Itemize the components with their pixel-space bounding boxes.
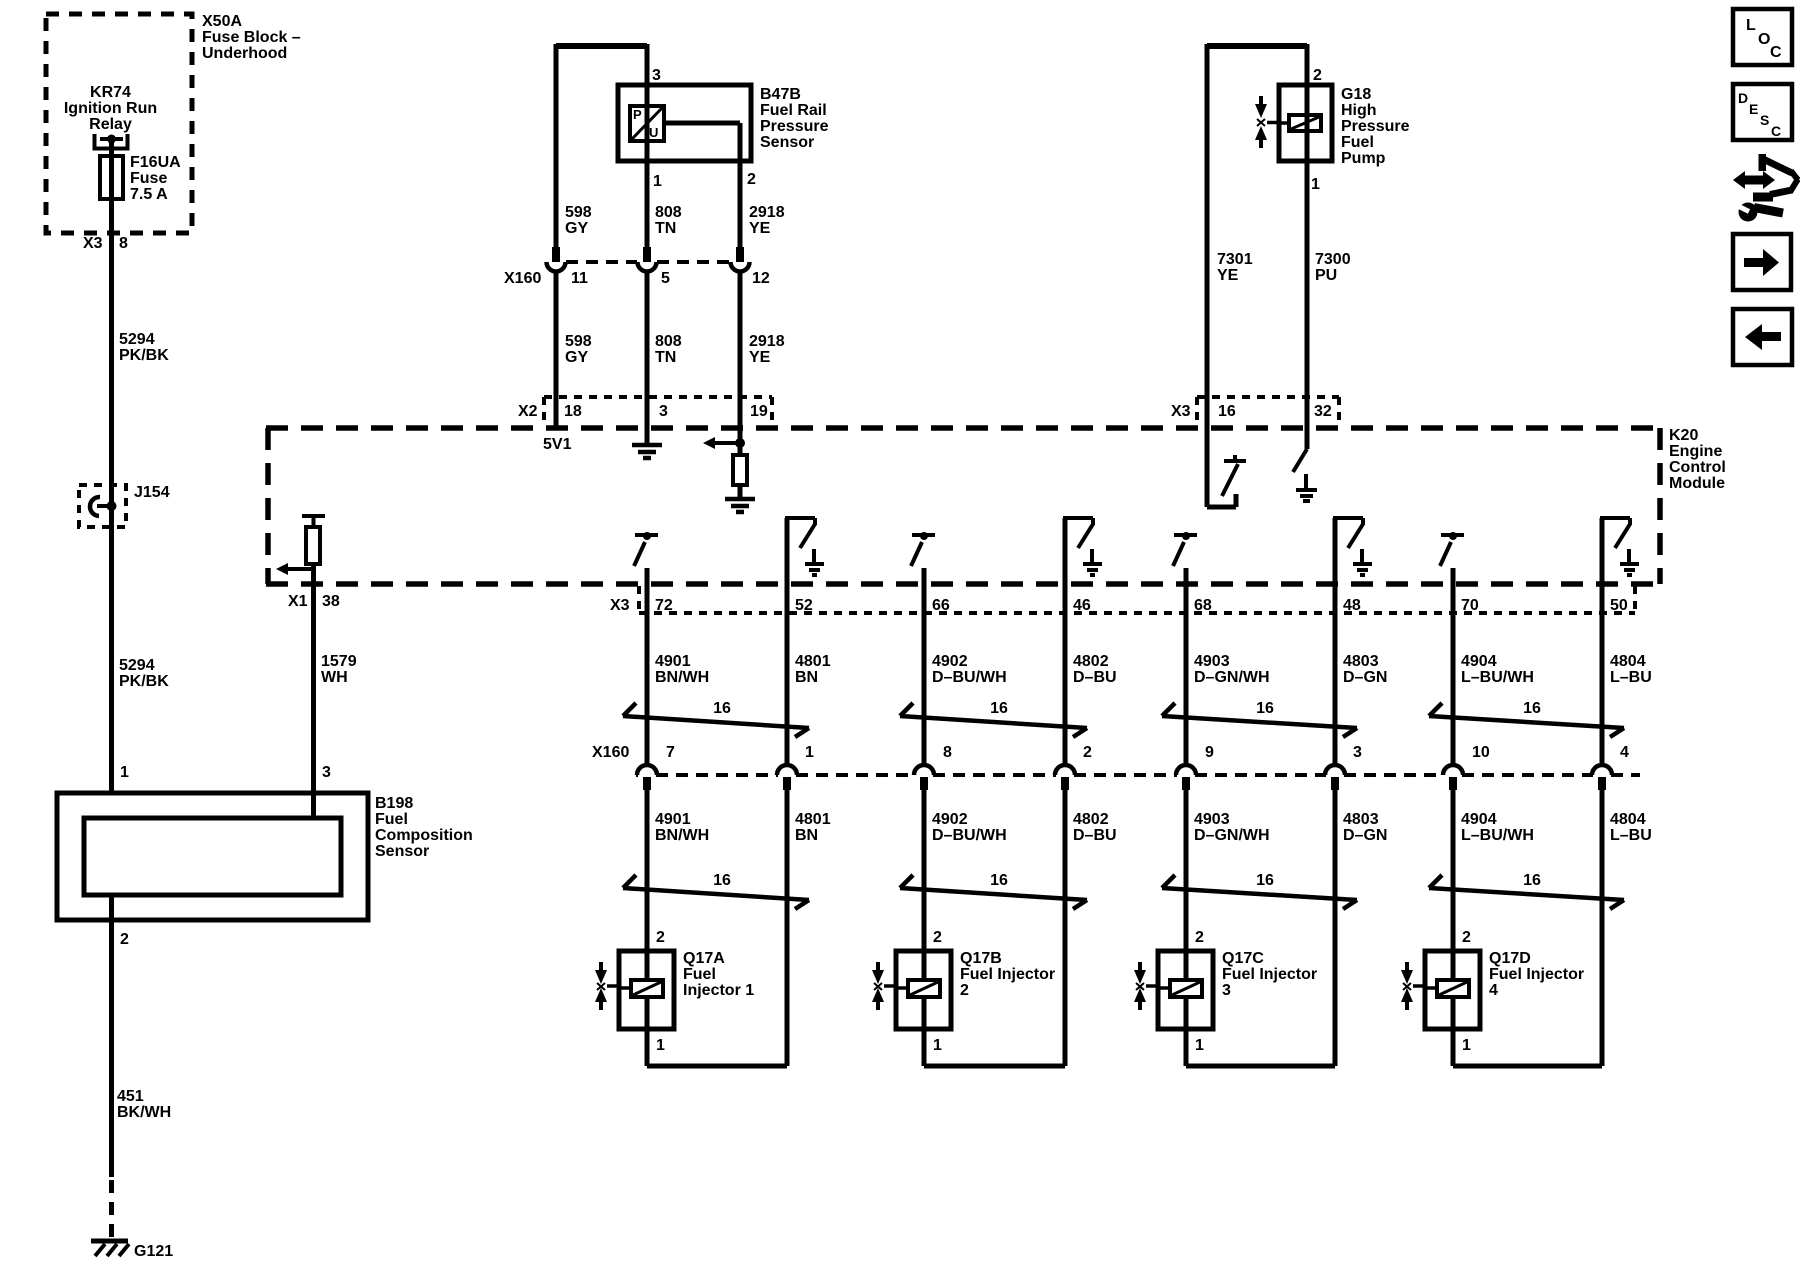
svg-text:Fuel: Fuel	[683, 966, 716, 983]
svg-text:Pressure: Pressure	[1341, 118, 1410, 135]
svg-text:TN: TN	[655, 220, 676, 237]
svg-text:4803: 4803	[1343, 653, 1379, 670]
svg-text:Pump: Pump	[1341, 150, 1386, 167]
svg-text:Q17A: Q17A	[683, 950, 725, 967]
svg-text:4903: 4903	[1194, 653, 1230, 670]
svg-text:X3: X3	[83, 235, 103, 252]
svg-text:5: 5	[661, 270, 670, 287]
svg-text:O: O	[1758, 31, 1770, 48]
svg-text:KR74: KR74	[90, 84, 131, 101]
svg-text:C: C	[1770, 44, 1782, 61]
svg-text:4801: 4801	[795, 653, 831, 670]
svg-text:Control: Control	[1669, 459, 1726, 476]
svg-text:2918: 2918	[749, 204, 785, 221]
svg-text:Fuel Injector: Fuel Injector	[1489, 966, 1584, 983]
svg-text:C: C	[1771, 123, 1781, 139]
svg-text:BN: BN	[795, 669, 818, 686]
svg-text:X1: X1	[288, 593, 308, 610]
svg-text:PK/BK: PK/BK	[119, 673, 169, 690]
svg-text:4802: 4802	[1073, 811, 1109, 828]
svg-text:5294: 5294	[119, 331, 155, 348]
svg-text:BN/WH: BN/WH	[655, 827, 709, 844]
svg-text:8: 8	[943, 744, 952, 761]
svg-text:P: P	[633, 107, 642, 122]
svg-text:L–BU/WH: L–BU/WH	[1461, 669, 1534, 686]
svg-text:1: 1	[1311, 176, 1320, 193]
svg-text:3: 3	[652, 67, 661, 84]
svg-text:18: 18	[564, 403, 582, 420]
svg-text:B47B: B47B	[760, 86, 801, 103]
svg-text:D–GN: D–GN	[1343, 669, 1387, 686]
svg-text:S: S	[1760, 112, 1769, 128]
svg-text:4904: 4904	[1461, 653, 1497, 670]
svg-text:PU: PU	[1315, 267, 1337, 284]
svg-text:598: 598	[565, 333, 592, 350]
svg-text:10: 10	[1472, 744, 1490, 761]
svg-text:52: 52	[795, 597, 813, 614]
svg-text:4: 4	[1620, 744, 1629, 761]
svg-text:L–BU: L–BU	[1610, 827, 1652, 844]
svg-text:66: 66	[932, 597, 950, 614]
svg-text:1: 1	[1195, 1037, 1204, 1054]
svg-text:Fuse: Fuse	[130, 170, 167, 187]
svg-text:1579: 1579	[321, 653, 357, 670]
svg-text:Engine: Engine	[1669, 443, 1722, 460]
svg-text:4: 4	[1489, 982, 1498, 999]
svg-text:48: 48	[1343, 597, 1361, 614]
svg-text:J154: J154	[134, 484, 170, 501]
svg-text:38: 38	[322, 593, 340, 610]
svg-text:L: L	[1746, 17, 1756, 34]
svg-text:4902: 4902	[932, 811, 968, 828]
svg-text:2: 2	[960, 982, 969, 999]
svg-text:16: 16	[1218, 403, 1236, 420]
svg-text:7.5 A: 7.5 A	[130, 186, 168, 203]
svg-text:Relay: Relay	[89, 116, 132, 133]
svg-text:Underhood: Underhood	[202, 45, 287, 62]
svg-text:3: 3	[659, 403, 668, 420]
svg-text:GY: GY	[565, 349, 588, 366]
svg-text:451: 451	[117, 1088, 144, 1105]
svg-text:4802: 4802	[1073, 653, 1109, 670]
svg-text:16: 16	[1523, 700, 1541, 717]
svg-text:1: 1	[120, 764, 129, 781]
svg-text:11: 11	[571, 270, 588, 287]
svg-text:2: 2	[1083, 744, 1092, 761]
svg-text:46: 46	[1073, 597, 1091, 614]
svg-text:5V1: 5V1	[543, 436, 572, 453]
svg-text:598: 598	[565, 204, 592, 221]
svg-text:16: 16	[1256, 700, 1274, 717]
svg-text:7: 7	[666, 744, 675, 761]
svg-text:X3: X3	[610, 597, 630, 614]
svg-text:16: 16	[1256, 872, 1274, 889]
svg-text:4901: 4901	[655, 811, 691, 828]
svg-text:GY: GY	[565, 220, 588, 237]
svg-text:Q17B: Q17B	[960, 950, 1002, 967]
svg-text:YE: YE	[1217, 267, 1239, 284]
svg-text:U: U	[649, 125, 658, 140]
svg-text:5294: 5294	[119, 657, 155, 674]
svg-text:1: 1	[653, 173, 662, 190]
svg-text:D–GN: D–GN	[1343, 827, 1387, 844]
svg-text:1: 1	[805, 744, 814, 761]
svg-text:4904: 4904	[1461, 811, 1497, 828]
svg-text:X2: X2	[518, 403, 538, 420]
svg-text:X50A: X50A	[202, 13, 242, 30]
svg-text:D–BU/WH: D–BU/WH	[932, 827, 1007, 844]
svg-text:16: 16	[990, 872, 1008, 889]
svg-text:D–BU: D–BU	[1073, 669, 1117, 686]
svg-text:Q17C: Q17C	[1222, 950, 1264, 967]
svg-text:32: 32	[1314, 403, 1332, 420]
svg-text:D–GN/WH: D–GN/WH	[1194, 669, 1270, 686]
svg-text:Module: Module	[1669, 475, 1725, 492]
svg-text:Fuel: Fuel	[1341, 134, 1374, 151]
svg-text:Fuel Injector: Fuel Injector	[960, 966, 1055, 983]
svg-text:TN: TN	[655, 349, 676, 366]
svg-text:D–BU: D–BU	[1073, 827, 1117, 844]
svg-text:2: 2	[656, 929, 665, 946]
svg-text:16: 16	[713, 872, 731, 889]
svg-text:X160: X160	[592, 744, 629, 761]
svg-text:808: 808	[655, 204, 682, 221]
svg-text:BK/WH: BK/WH	[117, 1104, 171, 1121]
svg-text:4804: 4804	[1610, 653, 1646, 670]
svg-text:D: D	[1738, 90, 1748, 106]
svg-text:3: 3	[1222, 982, 1231, 999]
svg-text:2: 2	[120, 931, 129, 948]
svg-text:12: 12	[752, 270, 770, 287]
svg-text:PK/BK: PK/BK	[119, 347, 169, 364]
svg-text:F16UA: F16UA	[130, 154, 181, 171]
svg-text:Ignition Run: Ignition Run	[64, 100, 157, 117]
svg-text:2: 2	[1195, 929, 1204, 946]
svg-text:E: E	[1749, 101, 1758, 117]
svg-text:Pressure: Pressure	[760, 118, 829, 135]
svg-text:Fuel Injector: Fuel Injector	[1222, 966, 1317, 983]
svg-text:K20: K20	[1669, 427, 1698, 444]
svg-text:D–BU/WH: D–BU/WH	[932, 669, 1007, 686]
svg-text:2918: 2918	[749, 333, 785, 350]
svg-text:16: 16	[713, 700, 731, 717]
svg-text:Fuel: Fuel	[375, 811, 408, 828]
svg-text:X3: X3	[1171, 403, 1191, 420]
svg-text:4804: 4804	[1610, 811, 1646, 828]
svg-text:2: 2	[1313, 67, 1322, 84]
svg-text:8: 8	[119, 235, 128, 252]
svg-text:Fuse Block –: Fuse Block –	[202, 29, 301, 46]
svg-text:WH: WH	[321, 669, 348, 686]
svg-text:2: 2	[933, 929, 942, 946]
svg-text:G18: G18	[1341, 86, 1371, 103]
svg-text:Sensor: Sensor	[760, 134, 814, 151]
svg-text:B198: B198	[375, 795, 413, 812]
svg-text:808: 808	[655, 333, 682, 350]
svg-text:19: 19	[750, 403, 768, 420]
svg-text:4801: 4801	[795, 811, 831, 828]
svg-text:BN/WH: BN/WH	[655, 669, 709, 686]
svg-text:70: 70	[1461, 597, 1479, 614]
svg-text:9: 9	[1205, 744, 1214, 761]
svg-text:Sensor: Sensor	[375, 843, 429, 860]
svg-text:1: 1	[933, 1037, 942, 1054]
svg-text:4903: 4903	[1194, 811, 1230, 828]
svg-text:BN: BN	[795, 827, 818, 844]
svg-text:YE: YE	[749, 220, 771, 237]
svg-text:50: 50	[1610, 597, 1628, 614]
svg-text:Injector 1: Injector 1	[683, 982, 754, 999]
svg-text:7301: 7301	[1217, 251, 1253, 268]
svg-text:L–BU/WH: L–BU/WH	[1461, 827, 1534, 844]
svg-text:1: 1	[1462, 1037, 1471, 1054]
svg-text:D–GN/WH: D–GN/WH	[1194, 827, 1270, 844]
svg-text:4803: 4803	[1343, 811, 1379, 828]
svg-text:Fuel Rail: Fuel Rail	[760, 102, 827, 119]
svg-text:3: 3	[322, 764, 331, 781]
svg-text:1: 1	[656, 1037, 665, 1054]
svg-text:68: 68	[1194, 597, 1212, 614]
svg-text:7300: 7300	[1315, 251, 1351, 268]
svg-text:2: 2	[747, 171, 756, 188]
svg-text:4901: 4901	[655, 653, 691, 670]
svg-text:72: 72	[655, 597, 673, 614]
svg-text:Q17D: Q17D	[1489, 950, 1531, 967]
svg-text:L–BU: L–BU	[1610, 669, 1652, 686]
svg-text:16: 16	[990, 700, 1008, 717]
svg-text:2: 2	[1462, 929, 1471, 946]
svg-text:YE: YE	[749, 349, 771, 366]
svg-text:G121: G121	[134, 1243, 173, 1260]
svg-text:4902: 4902	[932, 653, 968, 670]
svg-text:High: High	[1341, 102, 1377, 119]
svg-text:3: 3	[1353, 744, 1362, 761]
svg-text:Composition: Composition	[375, 827, 473, 844]
svg-text:16: 16	[1523, 872, 1541, 889]
svg-text:X160: X160	[504, 270, 541, 287]
